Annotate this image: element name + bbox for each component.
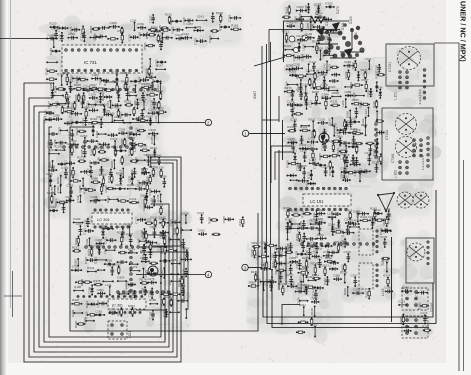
svg-text:R197: R197 xyxy=(72,298,80,302)
svg-text:L100: L100 xyxy=(302,44,306,51)
svg-text:R171: R171 xyxy=(77,156,85,160)
svg-text:R206: R206 xyxy=(74,320,78,328)
resistor R174 xyxy=(336,148,347,156)
resistor R115 xyxy=(118,29,125,44)
svg-text:R234: R234 xyxy=(208,35,212,43)
wire T252 feed xyxy=(391,237,393,322)
svg-text:C7151: C7151 xyxy=(388,62,392,72)
capacitor C206 xyxy=(65,195,74,203)
resistor R327 xyxy=(89,83,100,90)
jumper wire R184 xyxy=(129,263,139,265)
capacitor C163 xyxy=(309,158,319,166)
svg-text:C133: C133 xyxy=(309,100,313,108)
capacitor C120 xyxy=(340,229,354,237)
capacitor C224 xyxy=(312,210,319,221)
capacitor Q196 xyxy=(89,36,100,40)
junction L393 xyxy=(154,59,166,66)
op-amp IC731 xyxy=(62,45,142,73)
diode L200 xyxy=(182,246,189,257)
resistor R205 xyxy=(73,83,84,90)
svg-text:R231: R231 xyxy=(330,100,338,104)
svg-text:D238: D238 xyxy=(105,259,113,263)
jumper wire R223 xyxy=(128,90,137,97)
svg-text:L146: L146 xyxy=(154,115,158,122)
svg-text:D151: D151 xyxy=(341,22,345,30)
jumper wire C110 xyxy=(307,275,316,282)
capacitor C105 xyxy=(315,217,326,225)
svg-text:C351: C351 xyxy=(116,290,120,298)
svg-text:C378: C378 xyxy=(342,153,350,157)
svg-text:C262: C262 xyxy=(316,208,324,212)
resistor R302 xyxy=(310,129,316,138)
resistor R197 xyxy=(71,298,82,305)
svg-text:C371: C371 xyxy=(138,89,146,93)
resistor R382 xyxy=(121,79,129,91)
diode L289 xyxy=(345,90,354,97)
junction R139 xyxy=(345,121,348,129)
svg-text:R376: R376 xyxy=(149,165,157,169)
transistor Q161 xyxy=(370,192,395,222)
jumper wire Q269 xyxy=(300,125,310,127)
svg-text:R223: R223 xyxy=(128,90,136,94)
capacitor C111 xyxy=(88,160,100,167)
resistor R169 xyxy=(90,147,96,156)
resistor R238 xyxy=(117,231,125,246)
resistor R195 xyxy=(342,169,355,177)
resistor R162 xyxy=(124,99,133,106)
resistor R301 xyxy=(133,141,146,149)
svg-text:C383: C383 xyxy=(92,73,100,77)
diode C281 xyxy=(265,278,277,286)
capacitor C153 xyxy=(352,288,364,296)
svg-text:R363: R363 xyxy=(128,304,136,308)
capacitor C365 xyxy=(286,21,295,29)
svg-text:C398: C398 xyxy=(108,307,116,311)
svg-text:C322: C322 xyxy=(56,186,60,194)
capacitor C149 xyxy=(376,131,385,135)
resistor R218 xyxy=(87,247,93,257)
svg-text:R362: R362 xyxy=(114,106,122,110)
capacitor C382 xyxy=(150,225,158,238)
resistor R296 xyxy=(74,93,80,102)
capacitor C287 xyxy=(141,254,148,263)
svg-text:C244: C244 xyxy=(301,53,305,61)
jumper wire R179 xyxy=(130,265,141,272)
svg-text:C359: C359 xyxy=(315,221,323,225)
resistor R338 xyxy=(141,82,152,89)
svg-text:Q145: Q145 xyxy=(156,194,160,202)
jumper wire Q130 xyxy=(83,317,95,325)
svg-text:R263: R263 xyxy=(302,283,310,287)
jumper wire C309 xyxy=(57,127,68,135)
op-amp IC151 xyxy=(289,187,351,211)
capacitor C290 xyxy=(126,232,134,247)
resistor R342 xyxy=(145,31,156,39)
resistor L121 xyxy=(46,78,57,80)
svg-text:C252: C252 xyxy=(300,149,308,153)
capacitor C293 xyxy=(119,111,132,119)
wire nested frame 4 xyxy=(39,112,169,347)
svg-text:R321: R321 xyxy=(122,71,130,75)
capacitor D365 xyxy=(211,12,215,22)
resistor C210 xyxy=(313,87,325,89)
svg-text:R197: R197 xyxy=(361,78,369,82)
wire bundle line 1 xyxy=(150,246,184,300)
resistor R149 xyxy=(344,69,350,80)
resistor D299 xyxy=(381,257,389,259)
svg-text:R346: R346 xyxy=(349,82,353,90)
svg-text:R288: R288 xyxy=(120,139,124,147)
svg-text:R144: R144 xyxy=(129,197,137,201)
svg-text:C157: C157 xyxy=(76,222,84,226)
svg-text:R365: R365 xyxy=(83,187,87,195)
diode C102 xyxy=(95,243,103,255)
svg-text:C337: C337 xyxy=(89,105,97,109)
resistor R164 xyxy=(284,247,293,254)
pin row lower board A xyxy=(85,246,151,249)
capacitor R161 xyxy=(48,132,58,136)
resistor C305 xyxy=(365,142,374,144)
jumper wire L141 xyxy=(105,283,112,296)
diode L343 xyxy=(327,29,337,33)
resistor R223 xyxy=(285,5,291,15)
wire bottom bus 1 xyxy=(257,268,259,290)
resistor R211 xyxy=(302,284,316,291)
svg-text:R121: R121 xyxy=(151,215,159,219)
resistor R389 xyxy=(91,177,101,184)
jumper wire D155 xyxy=(353,210,361,223)
jumper wire L146 xyxy=(123,122,131,124)
svg-text:C330: C330 xyxy=(43,116,47,124)
diode C209 xyxy=(320,73,328,87)
svg-text:R211: R211 xyxy=(238,218,242,225)
svg-text:Q398: Q398 xyxy=(127,183,135,187)
svg-text:C209: C209 xyxy=(320,73,328,77)
svg-text:R304: R304 xyxy=(89,25,93,33)
resistor R248 xyxy=(312,90,320,104)
diode Q382 xyxy=(319,242,333,250)
resistor R127 xyxy=(47,101,60,109)
junction Q126 xyxy=(307,170,313,181)
svg-text:Q167: Q167 xyxy=(156,64,164,68)
svg-text:R311: R311 xyxy=(299,303,306,307)
svg-text:R218: R218 xyxy=(87,248,91,256)
capacitor C178 xyxy=(69,26,80,34)
capacitor C307 xyxy=(350,274,358,287)
wire top-left horizontal rail xyxy=(0,38,56,40)
diode L359 xyxy=(289,256,298,263)
svg-text:R238: R238 xyxy=(117,231,125,235)
junction R220 xyxy=(49,22,58,29)
capacitor C382 xyxy=(68,110,82,118)
jumper wire C204 xyxy=(95,131,107,139)
jumper wire R209 xyxy=(316,47,324,61)
svg-text:L147: L147 xyxy=(322,63,326,70)
svg-text:Q169: Q169 xyxy=(194,25,202,29)
svg-text:C320: C320 xyxy=(288,225,292,233)
jumper wire D196 xyxy=(94,99,104,106)
svg-text:1-2-3-4-5-6: 1-2-3-4-5-6 xyxy=(421,155,425,170)
resistor R150 xyxy=(208,216,219,224)
svg-text:LC 151: LC 151 xyxy=(310,199,324,204)
svg-text:C216: C216 xyxy=(142,204,146,212)
capacitor C126 xyxy=(158,230,165,239)
jumper wire L288 xyxy=(341,98,347,108)
resistor R359 xyxy=(159,297,165,305)
svg-text:L141: L141 xyxy=(105,283,112,287)
svg-text:L270: L270 xyxy=(167,236,171,243)
svg-text:R360: R360 xyxy=(351,62,355,70)
capacitor C298 xyxy=(179,239,186,249)
resistor R101 xyxy=(359,215,370,222)
capacitor C300 xyxy=(331,73,340,77)
svg-text:C284: C284 xyxy=(81,118,85,126)
resistor R177 xyxy=(340,152,348,164)
svg-text:R147: R147 xyxy=(256,253,260,261)
svg-text:C213: C213 xyxy=(338,140,342,148)
svg-text:R324: R324 xyxy=(284,44,292,48)
jumper wire Q145 xyxy=(156,193,162,202)
capacitor C225 xyxy=(296,87,304,100)
svg-text:R122: R122 xyxy=(135,127,139,135)
resistor R270 xyxy=(284,86,295,93)
diode R198 xyxy=(337,219,341,227)
capacitor C398 xyxy=(108,307,117,315)
capacitor R207 xyxy=(64,121,72,125)
svg-text:C120: C120 xyxy=(150,100,154,108)
svg-text:C7153: C7153 xyxy=(430,302,434,312)
jumper wire D236 xyxy=(169,311,179,313)
resistor R286 xyxy=(351,98,362,105)
svg-text:C285: C285 xyxy=(355,210,359,218)
capacitor C349 xyxy=(63,95,71,108)
wire right block outer box xyxy=(269,30,340,63)
svg-text:R393: R393 xyxy=(252,241,260,245)
svg-text:C127: C127 xyxy=(182,269,186,277)
resistor R381 xyxy=(248,280,259,287)
capacitor C396 xyxy=(109,21,120,29)
wire title rail xyxy=(434,43,459,371)
svg-text:R341: R341 xyxy=(156,203,164,207)
svg-text:C342: C342 xyxy=(49,205,57,209)
svg-text:C163: C163 xyxy=(309,158,317,162)
svg-text:C345: C345 xyxy=(84,257,88,265)
svg-text:R291: R291 xyxy=(312,273,320,277)
svg-text:R179: R179 xyxy=(353,128,361,132)
svg-text:R164: R164 xyxy=(284,247,292,251)
svg-text:R332: R332 xyxy=(325,1,333,5)
capacitor Q370 xyxy=(306,237,317,241)
diode C232 xyxy=(299,143,309,150)
svg-text:C351: C351 xyxy=(137,22,145,26)
resistor R171 xyxy=(77,156,86,163)
svg-text:R223: R223 xyxy=(278,282,286,286)
pin row long under IC731 xyxy=(63,88,157,91)
resistor R122 xyxy=(135,127,146,135)
resistor R121 xyxy=(151,215,159,227)
svg-text:C216: C216 xyxy=(140,246,144,254)
svg-text:L124: L124 xyxy=(130,19,137,23)
svg-text:D244: D244 xyxy=(139,98,147,102)
svg-text:R116: R116 xyxy=(116,172,123,176)
capacitor C121 xyxy=(66,79,74,93)
svg-text:R237: R237 xyxy=(321,95,329,99)
capacitor C265 xyxy=(335,134,343,145)
svg-text:R201: R201 xyxy=(302,265,310,269)
resistor R116 xyxy=(90,117,99,124)
pin column mid-left ticks xyxy=(130,127,137,152)
junction R284 xyxy=(169,18,182,26)
capacitor C132 xyxy=(365,151,373,165)
svg-text:L164: L164 xyxy=(103,247,107,254)
svg-text:C316: C316 xyxy=(308,136,316,140)
jumper wire Q265 xyxy=(50,185,56,195)
capacitor C359 xyxy=(315,221,323,235)
inductor L201 dashed box xyxy=(108,321,132,339)
resistor R393 xyxy=(252,241,261,248)
svg-text:R271: R271 xyxy=(72,245,80,249)
capacitor C285 xyxy=(141,167,150,175)
svg-text:C125: C125 xyxy=(325,35,329,43)
capacitor C104 xyxy=(89,92,98,100)
resistor R346 xyxy=(173,226,179,235)
resistor C348 xyxy=(161,29,171,31)
svg-text:C109: C109 xyxy=(130,291,134,299)
svg-text:C7162: C7162 xyxy=(385,130,389,140)
wire right block upper-left border xyxy=(282,120,284,160)
jumper wire Q172 xyxy=(158,30,166,44)
junction Q315 xyxy=(218,23,230,31)
svg-text:C360: C360 xyxy=(329,122,337,126)
svg-text:D207: D207 xyxy=(150,136,154,144)
svg-text:R392: R392 xyxy=(74,237,78,245)
svg-text:D213: D213 xyxy=(141,256,149,260)
jumper wire L146 xyxy=(154,114,160,124)
capacitor C236 xyxy=(160,231,170,235)
svg-text:C362: C362 xyxy=(372,148,376,156)
jumper wire R220 xyxy=(327,85,338,92)
jumper wire C307 xyxy=(102,280,114,282)
jumper wire D339 xyxy=(289,220,301,228)
svg-text:R108: R108 xyxy=(44,68,48,76)
svg-text:Q210: Q210 xyxy=(98,77,102,85)
capacitor C185 xyxy=(98,26,110,30)
svg-text:R348: R348 xyxy=(216,11,224,15)
capacitor C149 xyxy=(352,157,359,166)
resistor R352 xyxy=(80,279,92,287)
resistor R227 xyxy=(310,80,316,89)
svg-text:Q126: Q126 xyxy=(307,171,311,179)
svg-text:C111: C111 xyxy=(384,207,391,211)
jumper wire R361 xyxy=(94,196,107,204)
svg-text:R346: R346 xyxy=(173,227,177,235)
jumper wire R324 xyxy=(284,44,293,51)
capacitor C144 xyxy=(328,223,336,236)
diode R163 xyxy=(305,180,316,188)
svg-text:R309: R309 xyxy=(300,125,308,129)
resistor R181 xyxy=(81,105,89,119)
svg-text:R301: R301 xyxy=(308,117,316,121)
svg-text:C140: C140 xyxy=(76,195,80,203)
transistor Q151 cluster xyxy=(315,6,365,58)
svg-text:C399: C399 xyxy=(96,300,100,308)
jumper wire D359 xyxy=(327,215,335,229)
resistor R345 xyxy=(158,216,166,229)
registration crosshair xyxy=(4,271,22,317)
svg-text:R115: R115 xyxy=(118,29,125,33)
resistor R394 xyxy=(291,110,303,118)
capacitor C111 xyxy=(384,207,391,220)
svg-text:C203: C203 xyxy=(318,117,326,121)
jumper wire L395 xyxy=(136,238,149,245)
capacitor R158 xyxy=(323,129,327,137)
jumper wire D286 xyxy=(149,298,158,305)
resistor D313 xyxy=(149,262,158,264)
capacitor C125 xyxy=(325,34,332,44)
svg-text:C161: C161 xyxy=(59,200,67,204)
resistor R340 xyxy=(418,302,429,310)
svg-text:Q382: Q382 xyxy=(319,242,323,250)
svg-text:C396: C396 xyxy=(110,21,118,25)
label IOUT xyxy=(253,91,257,99)
svg-text:C301: C301 xyxy=(97,288,105,292)
jumper wire C116 xyxy=(382,259,389,273)
resistor R136 xyxy=(130,160,138,162)
resistor R169 xyxy=(83,92,85,103)
transformer T161 group box xyxy=(382,108,433,180)
capacitor C374 xyxy=(197,211,205,224)
svg-text:C295: C295 xyxy=(95,238,103,242)
svg-text:R149: R149 xyxy=(344,71,348,79)
svg-text:C209: C209 xyxy=(146,72,154,76)
capacitor C276 xyxy=(147,277,157,285)
resistor R185 xyxy=(158,25,169,33)
capacitor C168 xyxy=(288,140,296,154)
svg-text:D214: D214 xyxy=(125,223,133,227)
jumper wire R311 xyxy=(299,303,306,316)
resistor R211 xyxy=(238,216,244,227)
svg-text:C362: C362 xyxy=(336,129,340,137)
junction R294 xyxy=(58,163,66,166)
svg-text:R178: R178 xyxy=(328,64,332,72)
jumper wire D177 xyxy=(168,278,181,286)
wire channel branch to board xyxy=(262,96,279,122)
svg-text:R329: R329 xyxy=(85,301,89,309)
resistor R233 xyxy=(140,167,146,175)
jumper wire R147 xyxy=(156,272,164,284)
svg-text:R163: R163 xyxy=(305,180,309,188)
resistor R197 xyxy=(156,107,167,114)
svg-text:C358: C358 xyxy=(88,286,92,294)
page left edge line xyxy=(10,0,12,308)
svg-text:R273: R273 xyxy=(297,17,305,21)
resistor R288 xyxy=(120,138,126,147)
capacitor C244 xyxy=(301,53,312,61)
junction R379 xyxy=(375,81,378,92)
resistor R346 xyxy=(349,82,363,90)
inductor L164 pin array xyxy=(402,288,434,312)
capacitor C345 xyxy=(84,257,96,265)
svg-text:R288: R288 xyxy=(54,85,58,93)
svg-text:L201: L201 xyxy=(128,331,132,338)
svg-text:C163: C163 xyxy=(328,259,332,267)
transformer T252 xyxy=(359,229,385,266)
svg-text:C293: C293 xyxy=(296,225,300,233)
capacitor C262 xyxy=(321,164,329,176)
resistor R273 xyxy=(297,17,305,31)
diode D146 xyxy=(376,86,384,99)
resistor R290 xyxy=(62,71,70,86)
